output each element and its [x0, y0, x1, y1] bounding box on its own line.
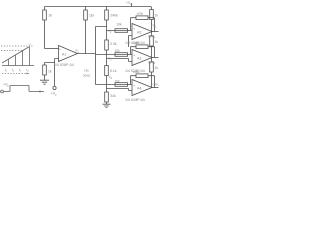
svg-text:240k: 240k [111, 14, 119, 18]
svg-text:A2: A2 [137, 31, 141, 35]
svg-text:+Vp: +Vp [3, 83, 10, 88]
resistor R8 3.3k chain [105, 40, 109, 50]
wire inverting branch [45, 63, 55, 66]
wire chain R8 to V2 [106, 50, 108, 66]
wire chain R9 to V3 [106, 76, 108, 93]
svg-text:-: - [59, 58, 60, 62]
wire A4 output [152, 87, 159, 89]
resistor R10 51k chain [105, 92, 109, 102]
resistor R13 1k mid [151, 32, 153, 58]
resistor R2 11k pull [85, 7, 87, 54]
svg-text:1k: 1k [155, 40, 159, 44]
resistor R3 240k top of chain [106, 7, 108, 28]
ground under R4 [40, 80, 49, 84]
svg-text:11k: 11k [89, 14, 95, 18]
wire top supply rail [45, 6, 152, 8]
wire A1 output [78, 53, 96, 55]
op-amp U1 A1 [59, 46, 78, 62]
svg-text:13k: 13k [84, 69, 89, 73]
svg-text:100k: 100k [137, 12, 144, 16]
resistor R5 10k input A2 [115, 29, 128, 33]
svg-text:1k: 1k [155, 14, 159, 18]
wire bus to V1 [96, 27, 133, 31]
resistor R9 5.1k chain [105, 66, 109, 76]
svg-text:O/P2: O/P2 [148, 61, 156, 66]
svg-text:O/P1: O/P1 [148, 35, 156, 40]
resistor R14 1M feedback A3 [136, 45, 148, 49]
wire A3 output [152, 57, 159, 59]
ground chain bottom [103, 104, 111, 107]
svg-text:1k: 1k [155, 66, 159, 70]
op-amp U4 A4 [132, 80, 152, 96]
svg-text:O/P3: O/P3 [153, 83, 160, 88]
op-amp U3 A3 [132, 50, 152, 66]
wire A1 noninverting input [45, 48, 59, 50]
resistor R12 1k top [151, 7, 153, 32]
wire A2 inverting stub [129, 36, 133, 48]
node +Vs tick [131, 3, 133, 7]
wire A3 inverting input [107, 59, 133, 62]
svg-text:t2: t2 [12, 68, 15, 73]
svg-text:t4: t4 [27, 68, 30, 73]
svg-text:A1: A1 [62, 53, 66, 57]
svg-text:10k: 10k [115, 80, 121, 84]
ramp axis arrowhead [27, 73, 30, 75]
wire chain V1 to R8 [106, 31, 108, 41]
wire A4 inverting input [107, 89, 133, 91]
resistor R4 1k to ground [43, 65, 47, 75]
op-amp U2 A2 [132, 24, 152, 40]
svg-text:+: + [133, 54, 135, 58]
wire A1 inverting input [55, 59, 59, 87]
resistor R15 1k low [151, 58, 153, 88]
svg-text:1k: 1k [48, 70, 52, 74]
node pulse end dot [39, 91, 41, 93]
resistor R6 10k input A3 [115, 53, 128, 57]
svg-text:10k: 10k [117, 23, 123, 27]
svg-text:V2: V2 [108, 57, 112, 62]
wire signal bus vertical [95, 27, 97, 85]
ramp waveform annotation [1, 46, 28, 74]
svg-text:3.3k: 3.3k [110, 42, 117, 46]
resistor R1 2k vertical left [44, 7, 46, 49]
wire bus to V3 [96, 84, 133, 86]
resistor R11 1M feedback A2 [136, 16, 148, 20]
svg-text:2k: 2k [49, 14, 53, 18]
svg-text:A4: A4 [137, 87, 141, 91]
svg-text:V1: V1 [108, 29, 112, 34]
svg-text:5.1k: 5.1k [110, 69, 117, 73]
svg-text:Vin: Vin [29, 43, 34, 48]
wire chain R10 to ground [106, 102, 108, 104]
svg-text:+: + [59, 48, 61, 52]
svg-text:-: - [134, 62, 136, 66]
svg-text:A3: A3 [137, 57, 141, 61]
svg-text:1/4 ICMP-04: 1/4 ICMP-04 [54, 63, 74, 67]
svg-text:V3: V3 [109, 75, 113, 80]
svg-text:10k: 10k [115, 49, 121, 53]
svg-text:1/4 ICMP-04: 1/4 ICMP-04 [125, 69, 145, 73]
svg-text:300Ω: 300Ω [83, 74, 91, 78]
resistor R7 10k input A4 [115, 83, 128, 87]
svg-text:C1: C1 [153, 24, 158, 29]
svg-text:t3: t3 [19, 68, 22, 73]
svg-text:+: + [133, 27, 135, 31]
svg-text:t1: t1 [5, 68, 8, 73]
svg-text:+Vp: +Vp [51, 92, 58, 97]
resistor R16 1M feedback A4 [136, 74, 148, 78]
svg-text:+: + [133, 84, 135, 88]
wire bus to V2 [96, 54, 133, 56]
svg-text:51k: 51k [111, 94, 117, 98]
svg-text:+Vs: +Vs [126, 1, 132, 6]
node input terminal [53, 86, 56, 89]
svg-text:1/4 ICMP-04: 1/4 ICMP-04 [125, 98, 145, 102]
svg-text:-: - [134, 36, 136, 40]
svg-text:1/4 ICMP-04: 1/4 ICMP-04 [125, 41, 145, 45]
pulse waveform annotation [1, 86, 44, 93]
wire A2 output [152, 31, 159, 33]
